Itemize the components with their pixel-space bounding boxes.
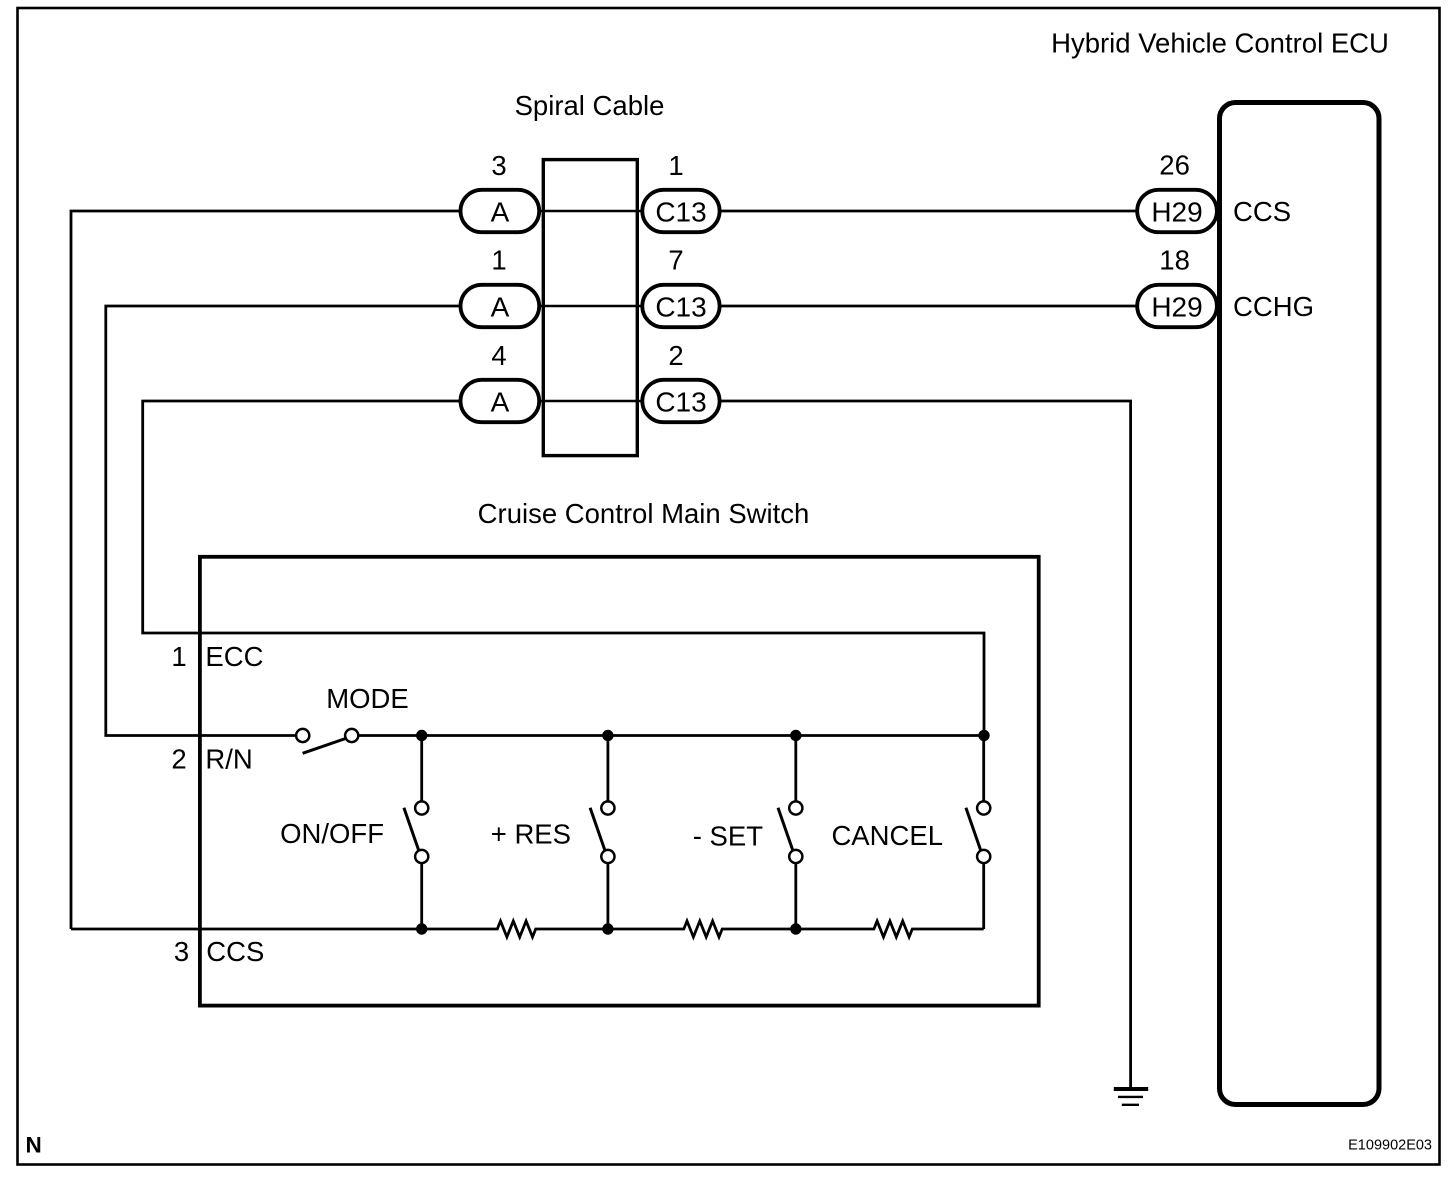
- wire row1 right: C13 to H29 CCS: [720, 210, 1138, 213]
- svg-text:1: 1: [171, 641, 186, 672]
- svg-text:C13: C13: [655, 197, 706, 228]
- switch + RES: [491, 736, 615, 930]
- svg-text:ECC: ECC: [205, 641, 263, 672]
- wire row3 through spiral cable: [541, 400, 642, 403]
- connector C13 pin7 row2: [642, 245, 719, 328]
- svg-text:CCS: CCS: [206, 936, 264, 967]
- svg-text:CCHG: CCHG: [1233, 291, 1314, 322]
- wire row3 left: A pin4 to ECC: [143, 401, 984, 736]
- svg-text:- SET: - SET: [693, 821, 763, 852]
- svg-text:C13: C13: [655, 387, 706, 418]
- wire row3 right: C13 to ground: [720, 401, 1131, 1087]
- connector H29 pin26 CCS: [1137, 150, 1291, 233]
- svg-text:H29: H29: [1151, 197, 1202, 228]
- junction on CCS rail at - SET: [790, 923, 801, 934]
- svg-text:3: 3: [174, 936, 189, 967]
- svg-text:CANCEL: CANCEL: [831, 820, 943, 851]
- switch - SET: [693, 736, 803, 930]
- wire R/N rail: [359, 734, 985, 737]
- junction on CCS rail at + RES: [602, 923, 613, 934]
- connector A pin3 row1: [461, 150, 540, 232]
- svg-text:A: A: [491, 387, 510, 418]
- connector A pin4 row3: [461, 340, 540, 422]
- junction on CCS rail at ON/OFF: [416, 923, 427, 934]
- wire row2 through spiral cable: [541, 305, 642, 308]
- svg-text:1: 1: [668, 150, 683, 181]
- svg-text:18: 18: [1159, 245, 1190, 276]
- svg-text:2: 2: [171, 744, 186, 775]
- svg-text:26: 26: [1159, 150, 1190, 181]
- svg-text:A: A: [491, 197, 510, 228]
- junction on R/N rail at ON/OFF: [416, 730, 427, 741]
- svg-text:7: 7: [668, 245, 683, 276]
- switch MODE: [296, 729, 358, 753]
- svg-text:Spiral Cable: Spiral Cable: [515, 90, 665, 121]
- svg-text:C13: C13: [655, 292, 706, 323]
- connector H29 pin18 CCHG: [1137, 245, 1314, 328]
- svg-text:E109902E03: E109902E03: [1348, 1138, 1432, 1154]
- switch CANCEL: [831, 736, 990, 930]
- svg-text:1: 1: [491, 245, 506, 276]
- switch ON/OFF: [280, 736, 428, 930]
- svg-text:4: 4: [491, 340, 506, 371]
- junction on R/N rail at + RES: [602, 730, 613, 741]
- svg-text:3: 3: [491, 150, 506, 181]
- svg-text:A: A: [491, 292, 510, 323]
- svg-text:R/N: R/N: [205, 744, 252, 775]
- spiral cable box: [543, 160, 637, 456]
- svg-text:Cruise Control Main Switch: Cruise Control Main Switch: [478, 498, 810, 529]
- wire row1 left: A pin3 to CCS rail: [71, 211, 460, 929]
- svg-text:N: N: [26, 1133, 42, 1158]
- wire row2 right: C13 to H29 CCHG: [720, 305, 1138, 308]
- svg-text:2: 2: [668, 340, 683, 371]
- connector A pin1 row2: [461, 245, 540, 328]
- svg-text:H29: H29: [1151, 292, 1202, 323]
- svg-text:CCS: CCS: [1233, 196, 1291, 227]
- svg-text:+ RES: + RES: [491, 819, 571, 850]
- junction on R/N rail at CANCEL: [978, 730, 989, 741]
- svg-text:MODE: MODE: [326, 683, 409, 714]
- wire row2 left: A pin1 to R/N: [106, 306, 460, 736]
- svg-text:Hybrid Vehicle Control ECU: Hybrid Vehicle Control ECU: [1051, 28, 1389, 59]
- connector C13 pin2 row3: [642, 340, 719, 422]
- ground: [1114, 1089, 1148, 1105]
- junction on R/N rail at - SET: [790, 730, 801, 741]
- ECU box U1: [1220, 103, 1380, 1105]
- connector C13 pin1 row1: [642, 150, 719, 232]
- svg-text:ON/OFF: ON/OFF: [280, 818, 384, 849]
- wire CCS rail with resistors R1 R2 R3: [71, 921, 984, 937]
- wire row1 through spiral cable: [541, 210, 642, 213]
- switch box SW1: [200, 557, 1039, 1006]
